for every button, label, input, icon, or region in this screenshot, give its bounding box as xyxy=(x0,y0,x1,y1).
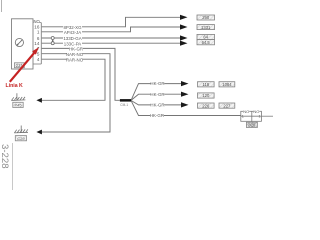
svg-text:C29: C29 xyxy=(17,136,25,141)
svg-text:227: 227 xyxy=(223,103,231,108)
svg-text:290: 290 xyxy=(202,15,210,20)
svg-text:Linia K: Linia K xyxy=(6,83,24,89)
svg-text:3-228: 3-228 xyxy=(0,144,10,169)
svg-text:1331: 1331 xyxy=(201,25,211,30)
svg-text:1: 1 xyxy=(242,114,244,118)
svg-text:HK-GR: HK-GR xyxy=(150,113,164,118)
svg-text:CM-1: CM-1 xyxy=(120,103,128,107)
svg-text:825: 825 xyxy=(248,123,256,128)
svg-text:HK-GR: HK-GR xyxy=(150,92,164,97)
svg-text:1: 1 xyxy=(37,30,40,35)
svg-text:RAR-NO: RAR-NO xyxy=(66,57,84,62)
svg-text:120: 120 xyxy=(202,93,210,98)
svg-text:AP43-JA: AP43-JA xyxy=(64,30,81,35)
svg-text:HK-GR: HK-GR xyxy=(150,103,164,108)
svg-text:1084: 1084 xyxy=(222,82,232,87)
svg-text:4: 4 xyxy=(37,57,40,62)
svg-text:NO: NO xyxy=(243,109,249,114)
svg-text:P45: P45 xyxy=(14,103,22,108)
svg-text:5: 5 xyxy=(37,52,40,57)
svg-text:118: 118 xyxy=(202,82,209,87)
svg-text:64.5: 64.5 xyxy=(202,40,211,45)
svg-text:HK-GR: HK-GR xyxy=(150,81,164,86)
svg-text:226: 226 xyxy=(202,103,210,108)
svg-text:NO: NO xyxy=(34,19,41,24)
svg-text:1: 1 xyxy=(259,114,261,118)
svg-text:NO: NO xyxy=(253,109,259,114)
svg-text:HK-GR: HK-GR xyxy=(69,47,83,52)
svg-text:NAR-NO: NAR-NO xyxy=(66,52,84,57)
